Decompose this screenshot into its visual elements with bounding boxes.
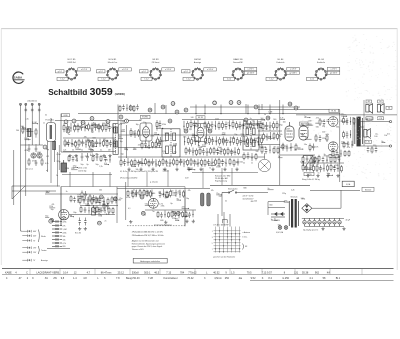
pilot lamp La7 [278, 226, 282, 230]
junction [37, 123, 38, 124]
junction [326, 160, 327, 161]
resistor if323 [201, 159, 203, 167]
svg-text:560: 560 [316, 126, 319, 128]
junction [179, 194, 180, 195]
svg-text:4,7: 4,7 [87, 271, 91, 274]
svg-text:EABC 80: EABC 80 [234, 58, 244, 61]
svg-text:10k: 10k [280, 134, 283, 136]
ground [102, 154, 105, 157]
svg-text:ZF-Durchlass 460kHz: ZF-Durchlass 460kHz [120, 178, 137, 180]
svg-text:b Osz.: b Osz. [243, 237, 248, 239]
svg-text:50p: 50p [121, 154, 124, 156]
junction [164, 214, 165, 215]
junction [211, 163, 212, 164]
capacitor C56 [375, 147, 378, 153]
svg-text:25µ: 25µ [189, 129, 192, 131]
resistor fm34 [100, 155, 102, 162]
ground [185, 220, 188, 223]
junction [148, 145, 149, 146]
svg-text:560: 560 [301, 198, 304, 200]
wire FM box left [60, 114, 62, 152]
svg-text:5k: 5k [81, 150, 83, 152]
wire if16 [197, 120, 199, 129]
wire ferrite drop 1 [47, 142, 49, 173]
resistor if327 [215, 158, 217, 166]
node 30 [294, 106, 298, 110]
junction [158, 134, 159, 135]
label EM84 [300, 122, 309, 125]
resistor tone27 [330, 156, 332, 163]
tube socket ECC 85 (top view) [65, 67, 77, 80]
capacitor if21 [159, 137, 162, 145]
wire drop top [220, 105, 222, 114]
wire drop top [258, 105, 260, 114]
wire spk bottom [361, 145, 390, 147]
wire stub [250, 123, 255, 125]
choke Dr1 [52, 221, 62, 223]
junction [127, 162, 128, 163]
svg-text:50µ: 50µ [95, 164, 98, 166]
resistor fm33 [92, 155, 94, 162]
wire ot primary [352, 117, 354, 146]
resistor R22 [130, 128, 132, 137]
wire drop top [247, 105, 249, 114]
junction [332, 175, 333, 176]
loudspeaker LS1 [366, 104, 373, 114]
svg-text:30p: 30p [136, 124, 139, 126]
svg-text:1,5M: 1,5M [62, 217, 66, 219]
wire fm drop 1 [69, 172, 71, 187]
wire stub [274, 219, 277, 221]
resistor if33 [131, 159, 133, 167]
choke Dr3 [52, 228, 62, 230]
svg-text:25µ: 25µ [174, 152, 177, 154]
wire stub [65, 144, 68, 146]
wire stub [192, 135, 197, 137]
switch contact [215, 233, 216, 234]
terminal [389, 121, 391, 123]
wire cb v [116, 187, 118, 223]
ground [84, 227, 87, 230]
capacitor C57 [84, 191, 87, 199]
svg-text:5n: 5n [225, 201, 227, 203]
wire ll rail [45, 193, 118, 195]
junction [258, 113, 259, 114]
tube socket EABC 80 (top view) [232, 67, 244, 80]
resistor R91 [81, 191, 83, 200]
svg-text:0,14: 0,14 [63, 271, 68, 274]
tube socket EM 84 (top view) [191, 67, 203, 80]
svg-text:UKW: UKW [63, 115, 67, 117]
resistor det30 [261, 146, 263, 154]
svg-text:40.52: 40.52 [213, 271, 220, 274]
junction [70, 127, 71, 128]
resistor fm24 [78, 139, 80, 147]
antenna terminal [25, 103, 27, 105]
svg-text:10k: 10k [384, 135, 387, 137]
wire B+ out [312, 207, 341, 209]
socket pin label below 3 [141, 77, 152, 80]
wire low rail FM [63, 151, 116, 153]
svg-text:1n: 1n [43, 123, 45, 125]
wire stub [87, 140, 93, 142]
capacitor det45 [312, 144, 315, 151]
svg-text:220k: 220k [335, 165, 339, 167]
junction [183, 126, 184, 127]
svg-text:1k 470 30p: 1k 470 30p [78, 170, 86, 172]
wire top rail 2 [78, 113, 340, 115]
resistor if34 [134, 159, 136, 167]
wire stub [154, 133, 159, 135]
junction [194, 169, 195, 170]
wire stub [103, 140, 108, 142]
capacitor if39 [151, 159, 154, 166]
svg-text:.47: .47 [18, 277, 22, 280]
wire taX2 [317, 158, 319, 165]
wire cbx2 [135, 190, 137, 197]
wire antenna 3 vertical [31, 104, 33, 145]
svg-text:a 170 V: a 170 V [247, 69, 254, 71]
resistor if13 [187, 121, 189, 130]
junction [77, 200, 78, 201]
capacitor C62 [84, 218, 87, 226]
junction [269, 113, 270, 114]
wire tone26 [326, 156, 328, 163]
junction [163, 193, 164, 194]
junction [80, 149, 81, 150]
resistor gapB4 [155, 140, 157, 148]
wire low bus [192, 172, 258, 174]
choke coil CH1 [201, 193, 204, 206]
resistor R ant [22, 126, 24, 134]
capacitor if35 [137, 160, 140, 167]
wire stub [27, 130, 31, 132]
junction [351, 144, 352, 145]
junction [290, 147, 291, 148]
switch contact [219, 239, 220, 240]
svg-text:86-47mm: 86-47mm [101, 271, 112, 274]
wire stub [216, 194, 221, 196]
svg-text:Anzeige: Anzeige [41, 259, 48, 262]
wire stub [145, 147, 150, 149]
resistor if324 [204, 159, 206, 167]
junction [135, 194, 136, 195]
svg-text:125p: 125p [244, 121, 248, 123]
node 17 [113, 197, 117, 201]
svg-text:125p: 125p [204, 143, 208, 145]
capacitor if217 [239, 137, 242, 145]
wire ll rail2 [69, 214, 115, 216]
wire stub [194, 126, 198, 128]
svg-text:560: 560 [278, 225, 281, 227]
svg-text:220k: 220k [85, 156, 89, 158]
resistor gapC4 [133, 105, 135, 112]
switch contact [219, 236, 220, 237]
bottom rule 2 [2, 274, 394, 276]
svg-text:g2 168 V: g2 168 V [330, 73, 338, 75]
ground [127, 168, 130, 171]
electrolytic capacitor C51 [308, 218, 311, 226]
socket pin label below 1 [57, 77, 68, 80]
svg-text:30p: 30p [120, 141, 123, 143]
resistor gapA7 [210, 147, 212, 155]
resistor cb28 [185, 211, 187, 218]
table tick [94, 269, 96, 274]
resistor llx8 [111, 196, 113, 204]
socket pin label right2 5 [244, 71, 256, 74]
svg-text:g2 168 V: g2 168 V [247, 73, 255, 75]
wire if110 [215, 121, 217, 130]
label imp [366, 117, 373, 120]
wire stub [326, 120, 329, 122]
ground [187, 168, 190, 171]
antenna terminal [38, 103, 40, 105]
wire stub [300, 125, 304, 127]
svg-text:1,5M: 1,5M [65, 168, 69, 170]
capacitor if317 [179, 159, 182, 166]
node 1 [43, 145, 47, 149]
wire rail IF b [155, 134, 265, 136]
capacitor fm213 [109, 140, 112, 147]
resistor if123 [260, 121, 262, 130]
wire diag [12, 186, 25, 199]
resistor if14 [190, 120, 192, 129]
wire det22 [270, 132, 272, 140]
resistor cbx4 [143, 189, 145, 196]
loudspeaker LS3 (main) [364, 129, 371, 139]
junction [225, 163, 226, 164]
label EF89 [196, 116, 205, 119]
svg-text:k 2,2: k 2,2 [187, 79, 191, 81]
wire stub [327, 174, 332, 176]
resistor llb0 [70, 195, 72, 202]
resistor fi3u0 [243, 152, 245, 160]
choke Dr5 [52, 235, 62, 237]
ground [192, 220, 195, 223]
capacitor if221 [253, 138, 256, 146]
svg-text:T.13.9.57: T.13.9.57 [262, 271, 273, 274]
switch contact [227, 236, 228, 237]
svg-text:gegen Chassis bei 220 V, ohne: gegen Chassis bei 220 V, ohne Signal. [132, 246, 163, 248]
choke coil CH2 [207, 193, 210, 206]
tube socket ECH 81 (top view) [106, 67, 118, 80]
junction [317, 161, 318, 162]
wire left long vertical [13, 150, 15, 205]
junction [155, 163, 156, 164]
wire antenna 1 vertical [20, 104, 22, 231]
svg-text:30p: 30p [73, 212, 76, 214]
capacitor cb21 [160, 212, 163, 218]
socket pin label below 2 [98, 77, 109, 80]
svg-text:100: 100 [374, 136, 377, 138]
node 12 [213, 101, 217, 105]
wire stub [268, 189, 274, 191]
wire det12 [269, 122, 271, 131]
table tick [229, 269, 231, 274]
resistor tone3 [313, 165, 315, 173]
svg-text:240: 240 [16, 130, 19, 132]
svg-text:560: 560 [273, 119, 276, 121]
svg-text:0,5M: 0,5M [57, 154, 61, 156]
svg-text:2n: 2n [294, 150, 296, 152]
wire stub [92, 125, 95, 127]
wire mains b [268, 206, 285, 208]
resistor fm17 [88, 123, 90, 132]
resistor cb23 [168, 212, 170, 219]
svg-text:k 2,2: k 2,2 [102, 79, 106, 81]
socket pin label right 6 [287, 67, 300, 70]
label sp2 top [378, 100, 384, 103]
wire if310 [155, 159, 157, 167]
svg-text:76.42: 76.42 [187, 277, 194, 280]
capacitor out31 [347, 141, 350, 147]
svg-text:0,1: 0,1 [47, 191, 50, 193]
svg-text:5n: 5n [165, 198, 167, 200]
svg-text:30p: 30p [46, 149, 49, 151]
socket pin label below 5 [224, 77, 235, 80]
capacitor C58 [92, 195, 95, 202]
choke Dr8 [52, 245, 62, 247]
node 31 [90, 117, 94, 121]
table tick [59, 269, 61, 274]
brace lamps group2 [38, 246, 41, 254]
capacitor if15 [193, 121, 196, 129]
switch contact [239, 239, 240, 240]
junction [206, 152, 207, 153]
capacitor if313 [165, 160, 168, 167]
switch contact [239, 248, 240, 249]
resistor fm14 [77, 123, 79, 132]
wire stub [198, 146, 202, 148]
svg-text:4,7k: 4,7k [106, 213, 110, 215]
node 13 [229, 101, 233, 105]
resistor fm10 [63, 123, 65, 132]
svg-text:stat.: stat. [375, 132, 379, 135]
pushbutton switch matrix [214, 227, 241, 253]
junction [169, 163, 170, 164]
wire stub [121, 130, 126, 132]
wire cap bank rail [302, 217, 344, 219]
ground [164, 221, 167, 224]
svg-text:b2 a4 c1: b2 a4 c1 [26, 169, 33, 171]
svg-text:470k: 470k [126, 197, 130, 199]
label sp1 top [366, 100, 372, 103]
svg-text:220k: 220k [231, 137, 235, 139]
wire cb v2 [125, 182, 127, 220]
socket pin label right 1 [78, 68, 91, 71]
switch contact [223, 245, 224, 246]
wire psu link [340, 190, 342, 208]
wire cb210 [192, 210, 194, 217]
resistor det24 [277, 132, 279, 140]
wire stub [102, 124, 109, 126]
junction [99, 202, 100, 203]
svg-text:220: 220 [310, 165, 313, 167]
resistor out30 [343, 141, 345, 148]
svg-text:1,5: 1,5 [231, 271, 235, 274]
svg-text:1,5M: 1,5M [286, 129, 291, 131]
coil L2 [53, 142, 56, 150]
pilot lamp La1 [22, 230, 31, 233]
node 23 [165, 194, 169, 198]
svg-text:50p: 50p [75, 160, 78, 162]
svg-text:L 80: L 80 [367, 141, 370, 143]
wire stub [98, 215, 101, 217]
junction [337, 168, 338, 169]
wire fm110 [98, 123, 100, 132]
wire stub [131, 166, 135, 168]
junction [269, 127, 270, 128]
resistor tone24 [318, 155, 320, 162]
wire stub [45, 217, 49, 219]
svg-text:10k: 10k [256, 151, 259, 153]
node 18 [98, 221, 102, 225]
choke Dr6 [52, 239, 62, 241]
node 21 [171, 211, 175, 215]
svg-text:2n: 2n [250, 118, 252, 120]
svg-text:2,2k: 2,2k [291, 190, 295, 192]
svg-text:560: 560 [230, 153, 233, 155]
capacitor gapA5 [202, 148, 205, 155]
wire if114 [229, 120, 231, 129]
wire stub [278, 157, 283, 159]
wire stub [279, 146, 283, 148]
capacitor cb11 [135, 190, 138, 197]
junction [220, 113, 221, 114]
capacitor C4 [28, 146, 31, 152]
svg-text:47k: 47k [211, 190, 214, 192]
svg-text:220: 220 [196, 164, 199, 166]
svg-text:g 9,2: g 9,2 [58, 71, 62, 73]
svg-text:7.8: 7.8 [116, 277, 120, 280]
wire fi3u2 [251, 153, 253, 161]
junction [94, 155, 95, 156]
wire rail IF c [118, 156, 265, 158]
ferrite antenna [47, 118, 56, 142]
resistor R88 [315, 134, 317, 142]
wire if118 [243, 120, 245, 129]
wire v1 [120, 123, 122, 160]
switch contact [231, 236, 232, 237]
socket pin label left 1 [56, 70, 65, 73]
resistor if38 [148, 159, 150, 167]
resistor if212 [222, 136, 224, 145]
node 20 [141, 211, 145, 215]
switch contact [219, 251, 220, 252]
coil core [31, 153, 36, 158]
ground [108, 154, 111, 157]
junction [309, 168, 310, 169]
resistor if119 [246, 121, 248, 130]
resistor cbx3 [139, 190, 141, 197]
resistor cb10 [132, 190, 134, 198]
svg-text:560: 560 [252, 120, 255, 122]
svg-text:125p: 125p [172, 195, 176, 197]
resistor fm211 [103, 140, 105, 148]
wire ferrite drop 3 [54, 142, 56, 163]
antenna terminal [20, 103, 22, 105]
svg-text:470k: 470k [132, 134, 136, 136]
svg-text:1n: 1n [271, 219, 273, 221]
resistor tone4 [316, 164, 318, 172]
svg-text:560: 560 [170, 191, 173, 193]
rectifier bridge B1 [302, 204, 312, 213]
wire stub [32, 123, 37, 125]
electrolytic capacitor C55 [328, 218, 331, 226]
wire rail det b [258, 130, 282, 132]
socket pin label right 5 [244, 67, 256, 70]
capacitor llx9 [115, 196, 118, 203]
